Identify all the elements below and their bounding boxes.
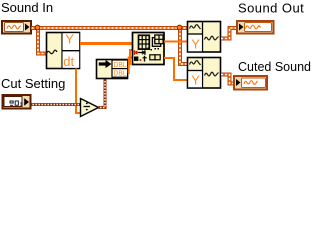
svg-text:Cuted Sound: Cuted Sound [238, 60, 311, 74]
waveform indicator Sound Out [237, 21, 274, 34]
svg-text:Sound In: Sound In [1, 0, 53, 15]
wire: branch down to Get Waveform Components [38, 27, 47, 54]
svg-text:dt: dt [63, 54, 74, 69]
svg-text:Y: Y [191, 72, 200, 87]
wire: branch down to Build Waveform 2 [180, 27, 188, 64]
svg-text:Y: Y [191, 36, 200, 51]
square-dot-t glyph [134, 56, 147, 62]
converter subVI (arrow, DBL DBL) [97, 60, 128, 79]
svg-text:Sound Out: Sound Out [238, 1, 304, 16]
wire: DBL top to split index input [128, 50, 133, 64]
grid glyph 2 (offset pair) [152, 35, 163, 46]
junction dot at second branch [177, 25, 182, 30]
grid glyph 1 [139, 35, 150, 49]
svg-text:DBL: DBL [114, 69, 127, 78]
waveform control Sound In [2, 21, 31, 34]
Build Waveform 1 [188, 22, 221, 53]
junction dot near Sound In [35, 25, 40, 30]
input squiggle glyph [46, 50, 57, 54]
numeric control Cut Setting [3, 95, 31, 109]
wire: Build Waveform 2 output to Cuted Sound [221, 75, 234, 84]
wire: divide output dotted, up to converter [99, 79, 106, 108]
mini digital digits [10, 101, 22, 105]
small dots [148, 48, 150, 50]
Get Waveform Components block [46, 32, 80, 69]
Split 1D Array block [133, 33, 165, 65]
svg-text:Cut Setting: Cut Setting [1, 76, 65, 91]
svg-text:Y: Y [65, 32, 74, 47]
output squares [150, 55, 155, 60]
index-length glyph [135, 50, 145, 55]
wire: Cut Setting dotted wire to divide [32, 103, 82, 106]
wire: Build Waveform 1 output to Sound Out [221, 28, 237, 39]
wire: Sound In main waveform wire (horizontal) [32, 26, 189, 30]
wire: Y array output (orange) [80, 42, 133, 45]
wire: DBL bottom to split length input [128, 58, 133, 74]
waveform indicator Cuted Sound [234, 76, 267, 90]
divide function [81, 99, 99, 117]
Build Waveform 2 [188, 58, 221, 89]
wire: split output 1 to Build Waveform 1 [164, 41, 188, 43]
wire: dt output down to divide [76, 69, 81, 114]
wire: split output 2 to Build Waveform 2 [164, 58, 188, 80]
